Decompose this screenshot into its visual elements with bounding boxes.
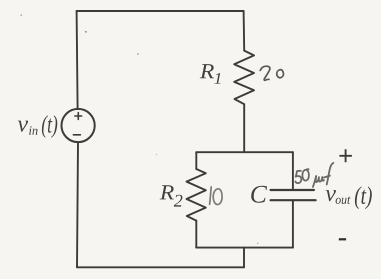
wire left upper xyxy=(77,11,78,109)
minus sign (output polarity) xyxy=(339,238,346,240)
label R1 - R xyxy=(200,64,214,78)
wire rectangle right upper (to capacitor) xyxy=(292,152,294,189)
wire right upper (top corner to R1) xyxy=(243,11,246,51)
source minus sign xyxy=(73,134,80,136)
handwritten value 50uF (for C) xyxy=(295,163,333,187)
wire rectangle left lower xyxy=(195,221,197,248)
wire left lower xyxy=(77,142,78,267)
label v_out(t) - v xyxy=(326,190,336,201)
label v_in(t) - in subscript xyxy=(29,126,37,135)
handwritten value 10 (for R2) xyxy=(210,187,223,205)
resistor R1 xyxy=(234,51,254,105)
capacitor C bottom plate xyxy=(271,199,316,201)
label R2 - subscript 2 xyxy=(174,195,183,207)
label v_in(t) - (t) xyxy=(42,115,57,138)
wire rectangle top xyxy=(196,151,293,153)
label v_in(t) - v xyxy=(18,121,28,132)
wire bottom xyxy=(77,266,244,268)
scan speck xyxy=(85,31,87,33)
capacitor C top plate xyxy=(271,189,314,191)
wire stub bottom to rectangle xyxy=(243,248,245,268)
wire top xyxy=(77,10,244,12)
wire R1 to rectangle top xyxy=(243,104,245,152)
scan speck xyxy=(257,243,258,244)
label R1 - subscript 1 xyxy=(214,73,220,84)
label C xyxy=(251,186,267,203)
wire rectangle bottom xyxy=(196,247,293,249)
handwritten value 20 (for R1) xyxy=(260,66,283,80)
resistor R2 xyxy=(187,169,206,221)
plus sign (output polarity) xyxy=(339,149,352,162)
label v_out(t) - (t) xyxy=(355,187,372,210)
wire capacitor to rectangle bottom xyxy=(292,201,294,247)
scan speck xyxy=(156,154,157,155)
label v_out(t) - out subscript xyxy=(336,197,351,205)
label R2 - R xyxy=(160,185,174,199)
scan speck xyxy=(21,15,23,17)
wire rectangle left upper xyxy=(195,152,197,169)
source V1 circle xyxy=(62,109,95,142)
scan speck xyxy=(137,53,139,55)
source plus sign xyxy=(75,113,82,120)
